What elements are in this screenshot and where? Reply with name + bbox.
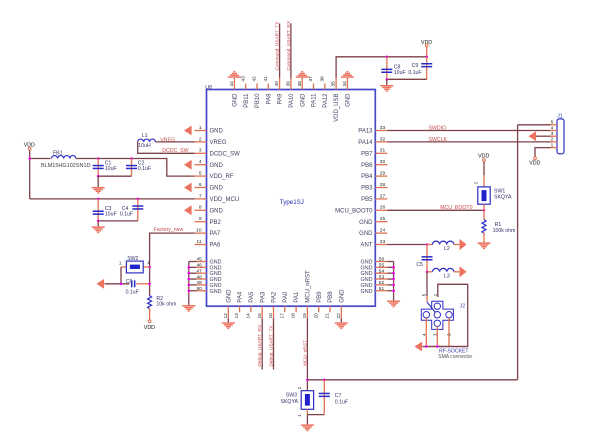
ground below right GND bus	[387, 301, 400, 308]
wire: MCU_BOOT0 net from pin 26 to SW1/R1	[387, 209, 484, 211]
wire: Factory_new from PA7 pin 10 to SW2	[150, 233, 195, 295]
svg-text:DCDC_SW: DCDC_SW	[210, 151, 241, 157]
right GND block bus wire	[387, 262, 393, 301]
svg-text:Factory_new: Factory_new	[154, 227, 184, 233]
U8 bottom pin names	[226, 270, 345, 303]
svg-text:21: 21	[325, 313, 331, 319]
wire: Debug_USART_RX from PA3 pin 15	[261, 318, 263, 369]
svg-text:2: 2	[147, 260, 150, 266]
svg-text:SKQYA: SKQYA	[494, 195, 512, 201]
svg-text:1: 1	[297, 414, 302, 417]
wire: C9 bottom to C8 bottom	[387, 78, 427, 80]
junction at SW2 pin 2	[148, 266, 151, 269]
wire: VDD to FB1 rail	[30, 158, 51, 160]
svg-text:PA9: PA9	[278, 93, 284, 105]
svg-text:PA3: PA3	[260, 291, 266, 303]
wire: MCU_nRST from pin 19 down to SW3	[306, 318, 308, 391]
svg-text:10uH: 10uH	[138, 143, 151, 149]
svg-text:GND: GND	[359, 231, 373, 237]
wire: SWDIO net from PA13 pin 33 to J1 pin 4	[387, 130, 550, 132]
wire: VDD to SW1	[483, 162, 485, 175]
svg-text:GND: GND	[210, 208, 224, 214]
svg-text:4: 4	[551, 125, 554, 131]
svg-text:37: 37	[308, 76, 314, 82]
svg-text:PB10: PB10	[255, 93, 261, 108]
svg-text:L2: L2	[444, 246, 450, 252]
wire: C8 bottom to ground	[386, 79, 388, 85]
right GND bus junctions	[392, 266, 395, 292]
junction C6 right / R2 top	[148, 283, 151, 286]
svg-text:0.1uF: 0.1uF	[335, 399, 348, 405]
svg-text:Command_USART_RX: Command_USART_RX	[286, 20, 292, 70]
svg-text:20: 20	[313, 313, 319, 319]
svg-text:U8: U8	[205, 85, 212, 91]
U8 bottom pin numbers 12-22	[223, 313, 342, 319]
junction MCU_BOOT0 / SW1 / R1	[483, 209, 486, 212]
svg-text:DCDC_SW: DCDC_SW	[162, 148, 188, 154]
antenna arrow after L2	[460, 239, 467, 250]
wire: MCU_nRST vertical riser	[517, 125, 519, 380]
svg-text:GND: GND	[210, 289, 222, 295]
power symbol VDD (below R2)	[148, 320, 151, 323]
svg-text:14: 14	[246, 313, 252, 319]
junction at C8 bottom	[386, 78, 389, 81]
svg-text:0.1uF: 0.1uF	[408, 70, 421, 76]
junction J2 pin 3 / ground rail	[436, 345, 439, 348]
svg-text:C6: C6	[126, 279, 133, 285]
ground arrow left of C6	[97, 279, 105, 289]
left GND bus junctions	[188, 266, 191, 292]
svg-text:PA6: PA6	[210, 243, 222, 249]
junction at VDD column	[425, 56, 428, 59]
U8 right pin numbers 33-23	[380, 125, 386, 245]
U8 right GND block pin numbers 56-51	[379, 257, 385, 292]
svg-text:GND: GND	[210, 186, 224, 192]
junction node at C1 top	[97, 157, 100, 160]
junction at C1 bottom	[97, 175, 100, 178]
capacitor C3 10uF	[97, 199, 99, 221]
ground below C1	[92, 187, 105, 194]
svg-text:PB5: PB5	[361, 197, 373, 203]
junction MCU_nRST / bottom rail	[306, 379, 309, 382]
ground below U8 pin 22	[340, 318, 342, 322]
capacitor C4 0.1uF	[137, 199, 139, 221]
svg-text:BLM15HG102SN1D: BLM15HG102SN1D	[41, 163, 91, 169]
svg-text:L1: L1	[142, 133, 148, 139]
wire: Debug_USART_TX from PA2 pin 16	[273, 318, 275, 369]
svg-text:3: 3	[551, 131, 554, 137]
capacitor C8 10uF	[386, 57, 388, 80]
ground flag on U8 pin 44	[228, 71, 241, 78]
svg-text:10uF: 10uF	[105, 211, 117, 217]
capacitor C7 0.1uF	[323, 380, 325, 415]
svg-text:5: 5	[551, 120, 554, 126]
J2 pin 4 lead to ground rail	[425, 318, 427, 347]
U8 right pin names	[335, 129, 373, 295]
svg-text:Command_USART_TX: Command_USART_TX	[275, 21, 281, 71]
svg-text:18: 18	[291, 313, 297, 319]
svg-text:1: 1	[551, 142, 554, 148]
svg-text:PB9: PB9	[317, 291, 323, 303]
svg-text:SWCLK: SWCLK	[429, 137, 448, 143]
svg-text:PB8: PB8	[328, 291, 334, 303]
svg-text:MCU_BOOT0: MCU_BOOT0	[440, 205, 472, 211]
svg-text:GND: GND	[210, 163, 224, 169]
junction node at VDD symbol	[28, 157, 31, 160]
svg-text:GND: GND	[300, 93, 306, 107]
svg-text:GND: GND	[226, 289, 232, 303]
svg-text:ANT: ANT	[361, 243, 373, 249]
ferrite bead FB1	[52, 156, 76, 159]
ground below C8	[380, 85, 393, 92]
svg-text:MCU_nRST: MCU_nRST	[303, 340, 309, 366]
svg-text:VREG: VREG	[160, 137, 175, 143]
left GND block bus wire	[189, 262, 197, 306]
wire: RF socket through-loop (pin1 to pin2)	[423, 284, 468, 346]
capacitor C6 0.1uF (series)	[131, 280, 135, 287]
U8 top pin leads	[234, 78, 347, 90]
capacitor C2 0.1uF	[131, 159, 133, 177]
header J1 body	[557, 119, 564, 154]
inductor L1 10uH between VREG and DCDC_SW	[156, 141, 195, 143]
svg-text:VDD: VDD	[144, 325, 155, 331]
wire: FB1 to VDD_RF pin 5 of U8	[76, 159, 195, 177]
svg-text:5: 5	[422, 293, 427, 296]
svg-text:GND: GND	[210, 129, 224, 135]
wire: SW3 bottom to ground node	[306, 409, 308, 414]
svg-text:42: 42	[252, 76, 258, 82]
svg-text:SMA connector: SMA connector	[438, 354, 472, 360]
svg-text:0.1uF: 0.1uF	[138, 166, 151, 172]
J2 pin 3 lead to ground rail	[436, 327, 438, 347]
wire: C7 bottom to SW3 bottom	[307, 414, 324, 416]
wire: Command_USART_RX from pin 39	[290, 23, 292, 77]
svg-text:GND: GND	[346, 93, 352, 107]
ground below left GND bus	[182, 305, 195, 312]
svg-text:1: 1	[119, 260, 122, 266]
svg-text:J2: J2	[460, 303, 466, 309]
wire: SW2 pin1 down to C6 node	[120, 267, 122, 284]
antenna arrow after L3	[460, 266, 467, 277]
svg-text:PA12: PA12	[323, 93, 329, 108]
ground flag on U8 pin 4	[184, 160, 192, 170]
svg-text:SKQYA: SKQYA	[281, 399, 299, 405]
svg-text:10uF: 10uF	[105, 166, 117, 172]
svg-text:L3: L3	[444, 274, 450, 280]
RF socket J2 body	[421, 301, 453, 329]
svg-text:41: 41	[263, 76, 269, 82]
wire: C4 bottom to C3 bottom	[98, 220, 138, 222]
svg-text:PB2: PB2	[210, 220, 222, 226]
svg-text:0.1uF: 0.1uF	[126, 290, 139, 296]
ground flag on U8 pin 34	[341, 71, 354, 78]
J1 pin numbers	[551, 120, 554, 149]
resistor R1 100k ohm	[483, 210, 485, 219]
ground flag on U8 pin 38	[296, 71, 309, 78]
wire: VDD_USB pin 35 to VDD rail	[336, 57, 427, 78]
svg-text:2: 2	[551, 137, 554, 143]
ground flag on U8 pin 6	[184, 183, 192, 193]
junction at C3 bottom	[97, 220, 100, 223]
svg-text:VREG: VREG	[210, 140, 227, 146]
svg-text:GND: GND	[359, 220, 373, 226]
junction at C4 top	[137, 198, 140, 201]
svg-text:10k ohm: 10k ohm	[156, 302, 176, 308]
svg-text:0.1uF: 0.1uF	[120, 211, 133, 217]
wire: MCU_nRST bottom rail to J1 riser	[307, 379, 517, 381]
wire: J1 pin 1 to VDD	[535, 148, 551, 157]
ground below SW3	[301, 424, 314, 431]
wire: C2 bottom to C1 bottom	[98, 175, 131, 177]
push button SW2	[143, 266, 149, 268]
junction J2 pin 4 / ground rail	[425, 345, 428, 348]
U8 left pin numbers 1-11	[196, 125, 202, 245]
J2 pin 2 lead to loop	[448, 318, 450, 347]
ground flag on U8 pin 1	[184, 126, 192, 136]
wire: ANT pin 23 to matching network	[387, 244, 427, 246]
U8 top pin numbers 44-34	[229, 76, 348, 87]
svg-text:PA5: PA5	[249, 291, 255, 303]
svg-text:2: 2	[474, 181, 479, 184]
svg-text:Type1SJ: Type1SJ	[280, 199, 304, 206]
wire: C5 node down to RF socket pin 5	[426, 272, 428, 296]
svg-text:GND: GND	[233, 93, 239, 107]
svg-text:SWDIO: SWDIO	[429, 126, 447, 132]
svg-text:13: 13	[234, 313, 240, 319]
power symbol VDD (below J1)	[534, 157, 537, 160]
svg-text:10uF: 10uF	[394, 70, 406, 76]
svg-text:SW3: SW3	[286, 392, 297, 398]
ground below R1	[478, 242, 491, 249]
svg-text:C5: C5	[416, 262, 423, 268]
svg-text:PA0: PA0	[283, 291, 289, 303]
svg-text:PA8: PA8	[266, 93, 272, 105]
inductor L2	[427, 244, 433, 246]
junction C5 / L3	[426, 271, 429, 274]
svg-text:PA1: PA1	[294, 291, 300, 303]
push button SW3 SKQYA	[301, 391, 313, 410]
wire: SW3 node to ground	[306, 415, 308, 425]
capacitor C9 0.1uF	[426, 57, 428, 80]
wire: SWCLK net from PA14 pin 32 to J1 pin 2	[387, 141, 550, 143]
junction ANT / L2 / C5	[426, 243, 429, 246]
svg-text:SW2: SW2	[127, 256, 138, 262]
wire: C3 bottom to ground	[97, 221, 99, 227]
capacitor C5 (series to RF socket)	[426, 245, 428, 272]
U8 bottom pin leads	[228, 306, 341, 318]
resistor R2 10k ohm	[148, 296, 152, 309]
svg-text:PA13: PA13	[358, 129, 373, 135]
junction at C7 top	[323, 379, 326, 382]
svg-text:MCU_BOOT0: MCU_BOOT0	[335, 208, 373, 214]
svg-text:PB6: PB6	[361, 163, 373, 169]
svg-text:VDD_RF: VDD_RF	[210, 174, 234, 180]
wire: J1 pin 5 to MCU_nRST column	[518, 124, 551, 126]
svg-text:C7: C7	[335, 393, 342, 399]
wire: R1 to ground	[483, 233, 485, 243]
wire: R2 to VDD symbol	[149, 308, 151, 320]
inductor L3	[427, 271, 433, 273]
svg-text:VDD_USB: VDD_USB	[334, 94, 340, 122]
ground arrow at J1 pin 3	[536, 135, 551, 137]
U8 left GND block pin numbers 45-50	[196, 257, 202, 292]
junction node at C2 top	[130, 157, 133, 160]
ground below C3	[92, 226, 105, 233]
svg-text:36: 36	[319, 76, 325, 82]
U8 left pin leads	[195, 131, 207, 291]
svg-text:PB4: PB4	[361, 174, 373, 180]
wire: SW1 to MCU_BOOT0 junction	[483, 204, 485, 210]
IC U8 Type1SJ module body	[207, 90, 376, 307]
svg-text:J1: J1	[557, 114, 563, 120]
wire: J2 ground rail	[423, 346, 468, 348]
svg-text:C9: C9	[412, 63, 419, 69]
J2 switch lever	[427, 302, 436, 313]
svg-text:FB1: FB1	[53, 151, 63, 157]
svg-text:PA14: PA14	[358, 140, 373, 146]
svg-text:MCU_nRST: MCU_nRST	[306, 270, 312, 303]
svg-text:2: 2	[297, 386, 302, 389]
wire: VDD vertical feed at far left	[29, 150, 31, 199]
U8 top pin names	[233, 93, 352, 122]
svg-text:VDD: VDD	[529, 161, 540, 167]
svg-text:PB3: PB3	[361, 186, 373, 192]
svg-text:PA7: PA7	[210, 231, 222, 237]
wire: C6 row to ground arrow	[105, 283, 130, 285]
svg-text:PB7: PB7	[361, 151, 373, 157]
junction at C8 top	[386, 56, 389, 59]
J2 pads	[423, 303, 452, 326]
svg-text:PA2: PA2	[272, 291, 278, 303]
junction at C3 top	[97, 198, 100, 201]
ground below U8 pin 12	[227, 318, 229, 322]
svg-text:VDD: VDD	[421, 40, 432, 46]
svg-text:PA4: PA4	[238, 291, 244, 303]
U8 left pin names	[210, 129, 241, 295]
wire: C1 bottom to ground	[97, 176, 99, 187]
push button SW1 SKQYA	[478, 187, 490, 204]
svg-text:GND: GND	[339, 289, 345, 303]
capacitor C1 10uF	[97, 159, 99, 177]
svg-text:VDD_MCU: VDD_MCU	[210, 197, 240, 203]
svg-text:GND: GND	[361, 289, 373, 295]
junction SW2 pin1 bottom	[120, 283, 123, 286]
wire: Command_USART_TX from pin 40	[279, 23, 281, 77]
svg-text:PB11: PB11	[244, 93, 250, 108]
svg-text:PA11: PA11	[312, 93, 318, 107]
wire: VDD symbol to rail	[426, 47, 428, 57]
ground flag on U8 pin 8	[184, 205, 192, 215]
svg-text:17: 17	[279, 313, 285, 319]
svg-text:PA10: PA10	[289, 93, 295, 108]
ground arrow at J2	[415, 342, 423, 352]
svg-text:43: 43	[240, 76, 246, 82]
U8 right pin leads	[375, 131, 387, 291]
J1 pin leads	[551, 125, 558, 148]
wire: VDD_MCU rail to pin 7 of U8	[30, 198, 195, 200]
svg-text:100k ohm: 100k ohm	[493, 228, 516, 234]
